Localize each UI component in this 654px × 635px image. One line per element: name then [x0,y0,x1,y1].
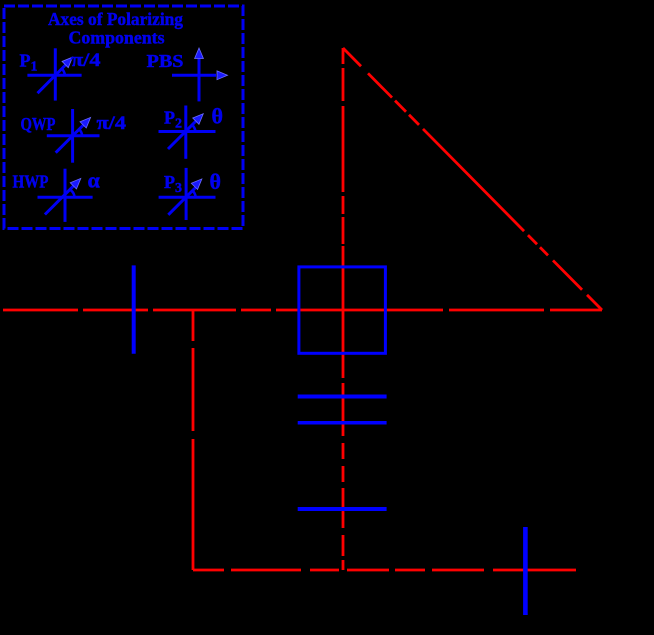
legend symbol P2 [159,104,223,159]
svg-text:Axes of Polarizing: Axes of Polarizing [48,9,183,29]
QWP plate line 1 (main diagram) [298,395,387,399]
polarizer P2 plate line (main diagram) [298,507,387,511]
svg-text:QWP: QWP [21,114,56,134]
svg-text:θ: θ [210,169,221,194]
wire: hypotenuse beam [343,48,602,310]
svg-text:Components: Components [69,28,165,48]
wire: vertical beam upper (triangle left leg) [342,48,345,310]
legend symbol HWP [13,168,101,222]
wire: left vertical beam [192,310,195,570]
polarizer P3 tick (main diagram, bottom right) [523,527,528,615]
svg-text:π/4: π/4 [71,50,101,71]
legend symbol P1 [20,48,102,100]
QWP plate line 2 (main diagram) [298,421,387,425]
legend symbol PBS [147,48,228,101]
legend title [48,9,183,48]
wire: bottom horizontal beam [193,569,576,572]
svg-text:π/4: π/4 [97,113,127,134]
PBS square (main diagram) [299,267,386,353]
svg-text:HWP: HWP [13,172,49,192]
svg-text:PBS: PBS [147,51,184,71]
legend symbol QWP [21,109,127,163]
legend symbol P3 [159,168,221,220]
svg-text:θ: θ [212,104,223,129]
polarizer P1 tick (main diagram) [132,265,136,353]
wire: main horizontal beam [3,309,602,312]
wire: vertical beam lower [342,310,345,570]
svg-text:α: α [88,168,101,193]
legend box [4,6,243,229]
